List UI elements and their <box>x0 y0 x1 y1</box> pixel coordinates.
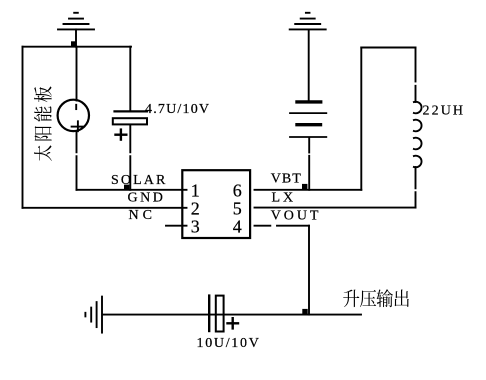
capacitor C2 (polarized 10U/10V) <box>209 296 238 332</box>
node junction VBT/battery <box>302 184 307 189</box>
svg-text:LX: LX <box>272 190 297 205</box>
inductor L1 22UH coil arcs <box>414 102 422 168</box>
wire top horizontal (solar + to caps) <box>23 46 132 48</box>
wire GND row <box>23 207 187 209</box>
svg-text:3: 3 <box>191 217 200 237</box>
wire VBT row (pin 6) <box>255 189 362 191</box>
svg-text:1: 1 <box>191 180 200 200</box>
node junction top-left <box>71 41 76 46</box>
wire solar branch upper <box>76 47 78 101</box>
svg-text:10U/10V: 10U/10V <box>197 336 261 351</box>
wire solar branch lower <box>76 132 78 153</box>
wire left vertical (to GND pin) <box>22 47 24 208</box>
wire battery to VBT <box>308 138 310 153</box>
pin 3 NC stub <box>166 225 187 227</box>
wire inductor bottom lead <box>415 167 417 188</box>
svg-text:GND: GND <box>128 190 166 205</box>
wire inductor top lead <box>415 48 417 82</box>
ground (top-left power ground symbol) <box>58 13 94 47</box>
wire LX row (pin 5) <box>255 207 416 209</box>
node junction output <box>302 309 307 314</box>
svg-text:22UH: 22UH <box>423 104 466 119</box>
svg-text:4: 4 <box>233 217 242 237</box>
ground (top-right) <box>290 13 326 100</box>
solar panel BT1 (photovoltaic cell circle) <box>58 100 89 131</box>
ground (bottom-left, rotated) <box>85 297 102 333</box>
svg-text:SOLAR: SOLAR <box>111 173 167 188</box>
svg-text:5: 5 <box>233 199 242 219</box>
battery BT2 (2-cell) <box>290 102 326 137</box>
wire cap C1 branch lower <box>129 125 131 153</box>
node junction SOLAR/C1 <box>124 185 129 190</box>
wire VOUT row (pin 4) <box>255 225 271 227</box>
wire cap C1 branch upper <box>129 47 131 112</box>
svg-text:4.7U/10V: 4.7U/10V <box>145 102 210 117</box>
svg-text:6: 6 <box>233 180 242 200</box>
wire SOLAR row <box>77 189 187 191</box>
label 升压输出 (boost output) <box>343 290 359 308</box>
wire VOUT vertical <box>308 226 310 315</box>
wire loop top horizontal <box>361 47 415 49</box>
svg-text:VOUT: VOUT <box>271 208 321 223</box>
wire loop left vertical <box>360 48 362 190</box>
capacitor C1 (polarized 4.7U/10V) <box>113 111 147 139</box>
svg-text:VBT: VBT <box>271 171 302 186</box>
svg-text:2: 2 <box>191 199 200 219</box>
wire output row <box>103 314 362 316</box>
op-amp/boost IC U1 box <box>182 170 250 238</box>
svg-text:NC: NC <box>129 208 156 223</box>
label 太阳能板 (solar panel, vertical) <box>34 86 52 160</box>
